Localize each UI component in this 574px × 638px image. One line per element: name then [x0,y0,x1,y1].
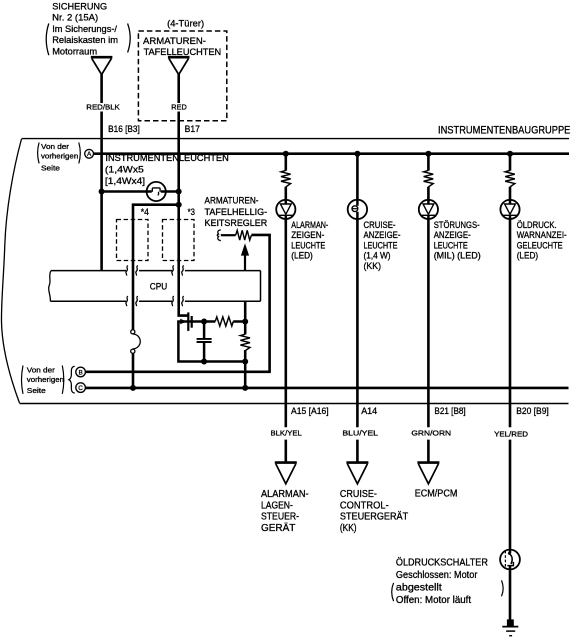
MOSFET Q1 channel bar [191,316,193,328]
svg-text:Im Sicherungs-/: Im Sicherungs-/ [52,24,117,35]
svg-text:SICHERUNG: SICHERUNG [52,1,107,12]
svg-text:GRN/ORN: GRN/ORN [411,429,451,438]
wire cruise branch [356,154,359,462]
svg-text:STÖRUNGS-: STÖRUNGS- [434,220,480,230]
CPU box top edge [51,270,261,272]
svg-text:(4-Türer): (4-Türer) [167,18,204,29]
svg-text:WARNANZEI-: WARNANZEI- [517,230,567,240]
svg-text:INSTRUMENTENLEUCHTEN: INSTRUMENTENLEUCHTEN [105,153,229,164]
svg-text:(LED): (LED) [517,251,539,261]
svg-text:abgestellt: abgestellt [396,582,442,593]
junction dots [283,151,289,157]
svg-text:Nr. 2 (15A): Nr. 2 (15A) [52,13,98,24]
instrument cluster box top edge [22,138,570,140]
svg-text:B20 [B9]: B20 [B9] [516,406,549,417]
parens fuse label [46,24,49,56]
LED oeldruck warn indicator [500,199,519,219]
wire instrument lamp feed [102,190,179,193]
resistor R3 alarm branch [281,170,291,187]
svg-text:YEL/RED: YEL/RED [494,429,529,438]
CPU box torn left edge [49,271,51,302]
instrument cluster box bottom edge [20,403,569,405]
curly brace before B C [69,366,75,393]
wire fuse B16 vertical [100,74,103,270]
svg-text:Relaiskasten im: Relaiskasten im [52,35,118,46]
svg-text:*4: *4 [141,207,149,218]
label Von der vorherigen Seite (top) [41,142,78,173]
node C circle [76,383,86,393]
parens Von der vorherigen Seite (bottom) [22,366,24,394]
svg-text:[1,4Wx4]: [1,4Wx4] [105,176,145,187]
svg-text:B16 [B3]: B16 [B3] [108,124,140,135]
node A circle [85,149,94,158]
svg-text:ARMATUREN-: ARMATUREN- [205,195,259,205]
capacitor C1 plates [197,339,212,342]
svg-text:Seite: Seite [41,164,60,173]
wire resistor to node [233,320,245,323]
bulb instrument lights [146,182,167,201]
paren right of oil switch wire [502,580,504,596]
svg-text:B21 [B8]: B21 [B8] [434,406,465,417]
parens Von der vorherigen Seite (top) [38,143,40,164]
svg-text:BLU/YEL: BLU/YEL [342,429,378,438]
label STOERUNGSANZEIGELEUCHTE (MIL) [434,220,481,261]
connector triangle B21 (to ECM/PCM) [417,463,439,484]
label ARMATUREN-TAFELHELLIGKEITSREGLER [205,195,268,228]
svg-text:ARMATUREN-: ARMATUREN- [143,36,206,47]
wire wiper lower segment CPU to drain node [244,301,247,334]
connector triangle A15 (to Alarmanlagen-Steuergeraet) [275,463,297,484]
svg-text:B: B [78,369,82,376]
svg-text:LEUCHTE: LEUCHTE [291,240,325,250]
MOSFET Q1 gate bar [187,312,189,331]
svg-text:RED/BLK: RED/BLK [86,103,120,112]
fuse label SICHERUNG [52,1,118,57]
svg-text:Von der: Von der [27,366,56,375]
svg-text:TAFELHELLIG-: TAFELHELLIG- [205,207,268,217]
label ARMATUREN-TAFELLEUCHTEN [143,36,221,58]
break marks on CPU top edge at wire *4 [126,266,128,276]
wire stoerungs branch [427,154,430,462]
svg-text:CRUISE-: CRUISE- [340,489,377,500]
svg-text:LEUCHTE: LEUCHTE [364,240,398,250]
bulb cruise indicator [348,199,367,220]
svg-text:A15 [A16]: A15 [A16] [291,406,329,417]
svg-text:LEUCHTE: LEUCHTE [434,240,468,250]
svg-text:A14: A14 [361,406,377,417]
svg-text:INSTRUMENTENBAUGRUPPE: INSTRUMENTENBAUGRUPPE [438,124,570,136]
break marks on CPU bottom edge at wire *3 [172,296,174,306]
svg-text:CPU: CPU [150,282,168,293]
svg-text:CONTROL-: CONTROL- [340,500,389,511]
svg-text:(LED): (LED) [291,251,313,261]
wire *4 branch [133,205,179,388]
svg-text:ALARMAN-: ALARMAN- [261,489,309,500]
paren left of oil switch note [392,583,394,601]
svg-text:vorherigen: vorherigen [41,151,78,160]
svg-text:ANZEIGE-: ANZEIGE- [434,230,471,240]
svg-text:(1,4Wx5: (1,4Wx5 [105,165,144,176]
bus C (ground bus from previous page) [85,387,568,390]
connector triangle A14 (to Cruise-Control-Steuergeraet) [346,463,368,484]
svg-text:STEUERGERÄT: STEUERGERÄT [340,511,408,523]
wire dimmer pot right lead to bus B [251,235,269,372]
svg-text:ÖLDRUCK.: ÖLDRUCK. [517,220,557,230]
wire oeldruck branch [509,154,512,623]
capacitor C1 stems [203,322,206,362]
svg-text:Von der: Von der [41,142,70,151]
svg-text:GELEUCHTE: GELEUCHTE [517,240,563,250]
break marks on CPU top edge at wire *3 [172,266,174,276]
label OELDRUCKSCHALTER block [396,556,488,606]
svg-text:ANZEIGE-: ANZEIGE- [364,230,401,240]
wire MOSFET drain to resistor [192,320,216,323]
ground G1 [502,619,518,635]
label INSTRUMENTENLEUCHTEN [105,153,229,187]
svg-text:A: A [87,151,92,158]
dashed box *4 [117,220,149,261]
svg-text:GERÄT: GERÄT [261,522,295,534]
label CRUISE-CONTROL-STEUERGERAET [340,489,408,534]
wire below dimmer resistor to bus C [244,350,247,388]
svg-text:KEITSREGLER: KEITSREGLER [205,218,268,228]
svg-text:(KK): (KK) [340,523,357,534]
svg-text:Motorraum: Motorraum [52,46,97,57]
wire alarm branch [284,154,287,462]
svg-text:*3: *3 [188,207,195,218]
bus B (from previous page) [85,370,270,373]
resistor R4 stoerungs branch [424,170,434,187]
connector triangle B17 (Armaturentafelleuchten) [168,57,190,74]
label CRUISE-ANZEIGELEUCHTE [364,220,401,271]
CPU box right edge [260,271,262,302]
svg-text:ECM/PCM: ECM/PCM [415,489,458,500]
connector joint circles and arc on *4 wire [131,330,135,334]
svg-text:LAGEN-: LAGEN- [261,500,293,511]
torn page edge left [1,139,21,403]
node B circle [76,367,86,377]
wire pot wiper stem [244,255,246,271]
svg-text:BLK/YEL: BLK/YEL [271,429,302,438]
CPU box bottom edge [50,300,260,302]
MOSFET source line and bottom rail [178,322,245,362]
svg-text:CRUISE-: CRUISE- [364,220,396,230]
break marks on CPU bottom edge at wire *4 [126,296,128,306]
resistor R1 horizontal at drain [215,317,233,326]
label ALARMANZEIGENLEUCHTE (LED) [291,220,328,261]
bus A (power feed from previous page) [93,152,569,155]
svg-text:ÖLDRUCKSCHALTER: ÖLDRUCKSCHALTER [396,556,488,568]
svg-text:C: C [78,385,83,392]
pot wiper arrow [241,243,249,255]
label OELDRUCK-WARNANZEIGELEUCHTE [517,220,567,261]
svg-text:RED: RED [171,103,187,112]
svg-text:(MIL) (LED): (MIL) (LED) [434,251,481,261]
oil pressure switch OELDRUCKSCHALTER [500,549,520,570]
LED alarm indicator [276,199,295,219]
svg-text:Offen: Motor läuft: Offen: Motor läuft [396,595,471,606]
wire B17 vertical to MOSFET gate [179,74,189,315]
svg-text:ZEIGEN-: ZEIGEN- [291,230,324,240]
svg-text:(KK): (KK) [364,261,382,271]
svg-text:B17: B17 [185,124,200,135]
potentiometer ARMATUREN-TAFELHELLIGKEITSREGLER [236,230,252,240]
fuse connector triangle (SICHERUNG Nr.2) [91,57,113,74]
resistor R5 oeldruck branch [505,170,515,187]
wire dimmer pot left lead [221,234,236,236]
MOSFET Q1 source arrow [180,319,186,325]
svg-text:STEUER-: STEUER- [261,512,299,523]
svg-text:(1,4 W): (1,4 W) [364,251,391,261]
resistor R2 vertical in dimmer [240,334,250,351]
svg-text:vorherigen: vorherigen [27,375,64,384]
svg-text:TAFELLEUCHTEN: TAFELLEUCHTEN [144,47,222,58]
svg-text:ALARMAN-: ALARMAN- [291,220,328,230]
svg-text:Seite: Seite [27,386,46,395]
label ALARMANLAGEN-STEUERGERAET [261,489,309,534]
svg-text:Geschlossen: Motor: Geschlossen: Motor [396,570,478,581]
LED stoerungs indicator (MIL) [419,199,438,219]
label Von der vorherigen Seite (bottom) [27,366,64,396]
dashed box ARMATUREN-TAFELLEUCHTEN (4-Tuerer) [138,31,226,121]
pot left break bracket [217,230,221,241]
dashed box *3 [163,220,195,261]
